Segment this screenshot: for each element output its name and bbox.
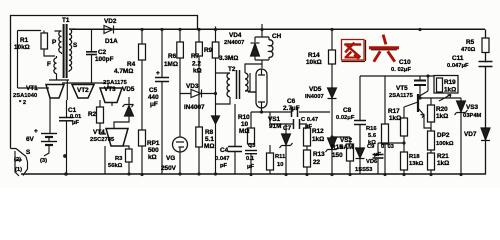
diode VD4 <box>254 37 256 60</box>
svg-text:VS1: VS1 <box>268 116 281 123</box>
svg-text:2SC2785: 2SC2785 <box>90 137 115 143</box>
svg-text:R10: R10 <box>238 114 250 121</box>
svg-text:5.1: 5.1 <box>205 136 214 143</box>
svg-text:R16: R16 <box>366 126 377 132</box>
svg-text:R17: R17 <box>388 108 400 115</box>
relay box R19 <box>434 76 458 94</box>
wire column R4 <box>141 30 143 175</box>
T2 right winding <box>245 73 248 91</box>
capacitor C9 <box>378 143 404 175</box>
svg-text:2SA1040: 2SA1040 <box>13 93 37 99</box>
capacitor C6 <box>270 111 330 113</box>
capacitor C5 <box>155 77 169 79</box>
capacitor C3 <box>245 150 257 152</box>
neon lamp VG <box>179 94 181 138</box>
capacitor C2 <box>91 29 93 58</box>
right border <box>485 30 487 175</box>
svg-text:C11: C11 <box>452 55 464 62</box>
svg-text:C2: C2 <box>98 49 107 56</box>
svg-text:R11: R11 <box>275 154 286 160</box>
svg-text:470Ω: 470Ω <box>461 47 476 53</box>
wire column R14 VD5 VS2 <box>331 30 333 175</box>
svg-text:VT4: VT4 <box>93 129 105 136</box>
svg-text:4.7MΩ: 4.7MΩ <box>114 68 133 75</box>
svg-text:R19: R19 <box>444 79 456 86</box>
resistor R17 <box>401 118 408 136</box>
resistor R21 <box>428 153 435 170</box>
resistor R16 <box>382 124 389 144</box>
diode VD5b <box>328 88 337 99</box>
svg-text:1kΩ: 1kΩ <box>312 136 324 143</box>
svg-text:VD5: VD5 <box>309 86 322 93</box>
svg-text:100kΩ: 100kΩ <box>436 141 454 147</box>
svg-text:R15: R15 <box>331 144 343 151</box>
svg-text:0.047μF: 0.047μF <box>447 63 469 69</box>
svg-text:VD5: VD5 <box>122 86 135 93</box>
svg-text:R6: R6 <box>168 53 177 60</box>
junction dots misc <box>214 74 430 144</box>
svg-text:0.1: 0.1 <box>246 156 255 162</box>
svg-text:C10: C10 <box>399 59 411 66</box>
svg-text:VG: VG <box>166 155 175 162</box>
T1 winding F <box>54 58 57 74</box>
svg-text:T2: T2 <box>228 66 236 73</box>
transistor VT4 <box>106 129 128 147</box>
svg-text:+: + <box>156 70 160 77</box>
svg-text:R2: R2 <box>88 111 97 118</box>
battery 6V <box>41 98 57 156</box>
junction dots bottom rail <box>63 154 463 176</box>
svg-text:100pF: 100pF <box>95 56 114 63</box>
resistor R18 <box>401 152 408 170</box>
svg-text:10: 10 <box>241 121 249 128</box>
svg-text:VD3: VD3 <box>186 83 199 90</box>
svg-text:0.02μF: 0.02μF <box>336 115 355 121</box>
svg-text:R8: R8 <box>205 129 214 136</box>
figure title red: char TU (boxed) <box>342 40 365 61</box>
capacitor C10 <box>419 76 421 98</box>
svg-text:440: 440 <box>148 94 159 101</box>
svg-text:R1: R1 <box>20 37 29 44</box>
wire column R9 <box>215 27 217 175</box>
capacitor C4 <box>228 146 242 148</box>
svg-text:13kΩ: 13kΩ <box>409 161 424 167</box>
resistor R8 <box>196 127 203 147</box>
svg-text:RP1: RP1 <box>147 140 160 147</box>
resistor R6 <box>177 42 184 58</box>
svg-text:* 2: * 2 <box>19 100 26 106</box>
svg-text:1kΩ: 1kΩ <box>444 87 456 94</box>
resistor R4 <box>139 44 146 60</box>
svg-text:C9: C9 <box>367 144 375 150</box>
svg-text:VT2: VT2 <box>77 87 89 94</box>
svg-text:C6: C6 <box>287 98 296 105</box>
wire column C4 <box>234 104 236 175</box>
svg-text:22: 22 <box>313 159 321 166</box>
svg-text:R14: R14 <box>308 52 320 59</box>
svg-text:R5: R5 <box>466 39 475 46</box>
svg-text:IN4007: IN4007 <box>305 94 324 100</box>
svg-text:56kΩ: 56kΩ <box>108 163 123 169</box>
svg-text:MΩ: MΩ <box>239 128 249 135</box>
svg-text:03P4M: 03P4M <box>463 113 482 119</box>
potentiometer DP2 <box>428 131 435 150</box>
switch S <box>11 149 28 177</box>
svg-text:10kΩ: 10kΩ <box>14 44 30 51</box>
svg-text:VS3: VS3 <box>466 104 479 111</box>
svg-text:1SS53: 1SS53 <box>355 167 373 173</box>
svg-text:VS2: VS2 <box>340 137 353 144</box>
wiper arrow <box>439 95 451 102</box>
tube bottom node and R10 <box>251 108 262 148</box>
resistor R5 <box>482 38 489 53</box>
resistor R10 <box>248 128 255 144</box>
svg-text:pF: pF <box>220 163 228 169</box>
svg-text:1kΩ: 1kΩ <box>436 113 448 120</box>
svg-text:R12: R12 <box>312 128 324 135</box>
oscillator inner box wires <box>18 30 42 32</box>
svg-text:VD6: VD6 <box>366 159 378 165</box>
black shade on TU box <box>342 40 366 62</box>
svg-text:(2): (2) <box>14 157 21 163</box>
VD4 CH parallel box <box>255 30 269 69</box>
outer border left and top with step <box>11 16 198 149</box>
svg-text:VD4: VD4 <box>229 32 242 39</box>
svg-text:C8: C8 <box>343 107 352 114</box>
svg-text:R4: R4 <box>127 61 136 68</box>
svg-text:C 0.47: C 0.47 <box>301 117 318 123</box>
svg-text:2.7μF: 2.7μF <box>283 105 300 112</box>
svg-text:10kΩ: 10kΩ <box>306 59 322 66</box>
black shade on LIU bar <box>366 40 398 61</box>
svg-text:91M: 91M <box>269 123 281 130</box>
svg-text:C4: C4 <box>220 147 229 154</box>
svg-text:R20: R20 <box>436 106 448 113</box>
junction dots top rail <box>140 28 421 31</box>
resistor R1 <box>41 33 48 49</box>
resistor R12 <box>304 128 311 146</box>
capacitor C8 <box>359 76 361 148</box>
svg-text:0. 03: 0. 03 <box>381 144 395 150</box>
svg-text:VT1: VT1 <box>26 85 38 92</box>
node bus from tube to C6/C7 <box>262 112 271 124</box>
resistor R2 <box>97 107 104 123</box>
arrow junction below VD3 <box>212 116 220 124</box>
transistor VT3 <box>100 88 122 103</box>
svg-text:IN4007: IN4007 <box>184 104 205 111</box>
svg-text:S: S <box>73 42 78 49</box>
svg-text:(3): (3) <box>40 158 47 164</box>
svg-text:2.2: 2.2 <box>192 61 201 68</box>
bottom rail <box>21 173 486 175</box>
wire column R6 and VG <box>179 30 181 94</box>
resistor R9 <box>212 42 219 58</box>
svg-text:2SA1175: 2SA1175 <box>389 93 414 99</box>
svg-text:VD2: VD2 <box>104 18 117 25</box>
resistor R13 <box>304 150 311 167</box>
diode VD2 <box>104 26 113 34</box>
wire column R7/R8 <box>198 30 200 175</box>
svg-text:6V: 6V <box>26 136 35 143</box>
resistor R14 <box>329 50 336 64</box>
inductor CH <box>269 40 273 57</box>
svg-text:250V: 250V <box>161 165 177 172</box>
svg-text:+: + <box>34 128 38 135</box>
svg-text:CH: CH <box>272 33 282 40</box>
zener VS1 <box>285 124 287 175</box>
svg-text:R18: R18 <box>409 154 420 160</box>
svg-text:10: 10 <box>277 162 283 168</box>
svg-text:kΩ: kΩ <box>148 154 157 161</box>
svg-text:R21: R21 <box>437 153 449 160</box>
svg-text:μF: μF <box>374 152 382 158</box>
svg-text:2N4007: 2N4007 <box>224 40 244 46</box>
collector bus <box>420 98 461 105</box>
svg-text:0. 02μF: 0. 02μF <box>391 67 411 73</box>
svg-text:T1: T1 <box>62 17 70 24</box>
svg-text:(1): (1) <box>15 167 22 173</box>
svg-text:VT3: VT3 <box>104 86 116 93</box>
diode VD5 vertical <box>123 97 134 107</box>
svg-text:R7: R7 <box>191 53 200 60</box>
capacitor C11 <box>478 63 493 67</box>
svg-text:0.047: 0.047 <box>215 156 230 162</box>
gas tube V <box>256 69 267 108</box>
svg-text:1kΩ: 1kΩ <box>389 115 401 122</box>
resistor R15 <box>332 137 350 175</box>
svg-text:μF: μF <box>72 120 80 126</box>
capacitor C1 <box>66 100 68 174</box>
svg-text:1kΩ: 1kΩ <box>437 160 449 167</box>
svg-text:kΩ: kΩ <box>193 68 202 75</box>
capacitor C7 <box>270 123 307 125</box>
resistor R3 <box>126 149 133 162</box>
svg-text:S: S <box>26 149 31 156</box>
T1 winding S <box>69 29 72 71</box>
svg-text:F: F <box>47 61 51 68</box>
antenna tick <box>261 24 263 30</box>
svg-text:R3: R3 <box>115 156 123 162</box>
bus wire upper right <box>360 75 434 77</box>
zener VS3 <box>460 98 462 175</box>
transistor VT2 <box>72 85 94 99</box>
T2 left winding <box>227 73 230 97</box>
figure title red: char LIU <box>371 36 398 61</box>
svg-text:MΩ: MΩ <box>204 143 214 150</box>
top rail <box>72 28 485 30</box>
svg-text:DP2: DP2 <box>437 132 450 139</box>
svg-text:D1A: D1A <box>105 38 118 45</box>
wire column C5 <box>161 30 163 175</box>
resistor R7 <box>196 42 203 56</box>
diode VD3 horizontal IN4007 <box>180 93 216 95</box>
svg-text:P: P <box>52 39 57 46</box>
svg-text:500: 500 <box>148 147 159 154</box>
svg-text:5.6: 5.6 <box>368 133 377 139</box>
svg-text:3.3MΩ: 3.3MΩ <box>219 55 238 62</box>
svg-text:150: 150 <box>332 152 343 159</box>
zener VS2 <box>328 138 337 149</box>
resistor R11 <box>267 153 274 170</box>
svg-text:1MΩ: 1MΩ <box>164 61 178 68</box>
svg-text:C7: C7 <box>283 125 292 132</box>
resistor R20 <box>428 105 435 122</box>
T1 winding P <box>59 31 62 53</box>
svg-text:C5: C5 <box>149 87 158 94</box>
svg-text:VD7: VD7 <box>464 131 477 138</box>
diode VD7 <box>481 128 490 141</box>
svg-text:C3: C3 <box>248 143 256 149</box>
svg-text:μF: μF <box>150 101 158 108</box>
svg-text:R13: R13 <box>313 151 325 158</box>
svg-text:C1: C1 <box>68 107 77 114</box>
diode VD6 <box>359 159 361 175</box>
svg-text:VT5: VT5 <box>396 85 408 92</box>
potentiometer RP1 <box>139 130 146 146</box>
transformer T1 core <box>64 24 67 78</box>
svg-text:R9: R9 <box>204 47 213 54</box>
svg-text:μF: μF <box>247 164 255 170</box>
transistor VT1 <box>46 85 64 99</box>
